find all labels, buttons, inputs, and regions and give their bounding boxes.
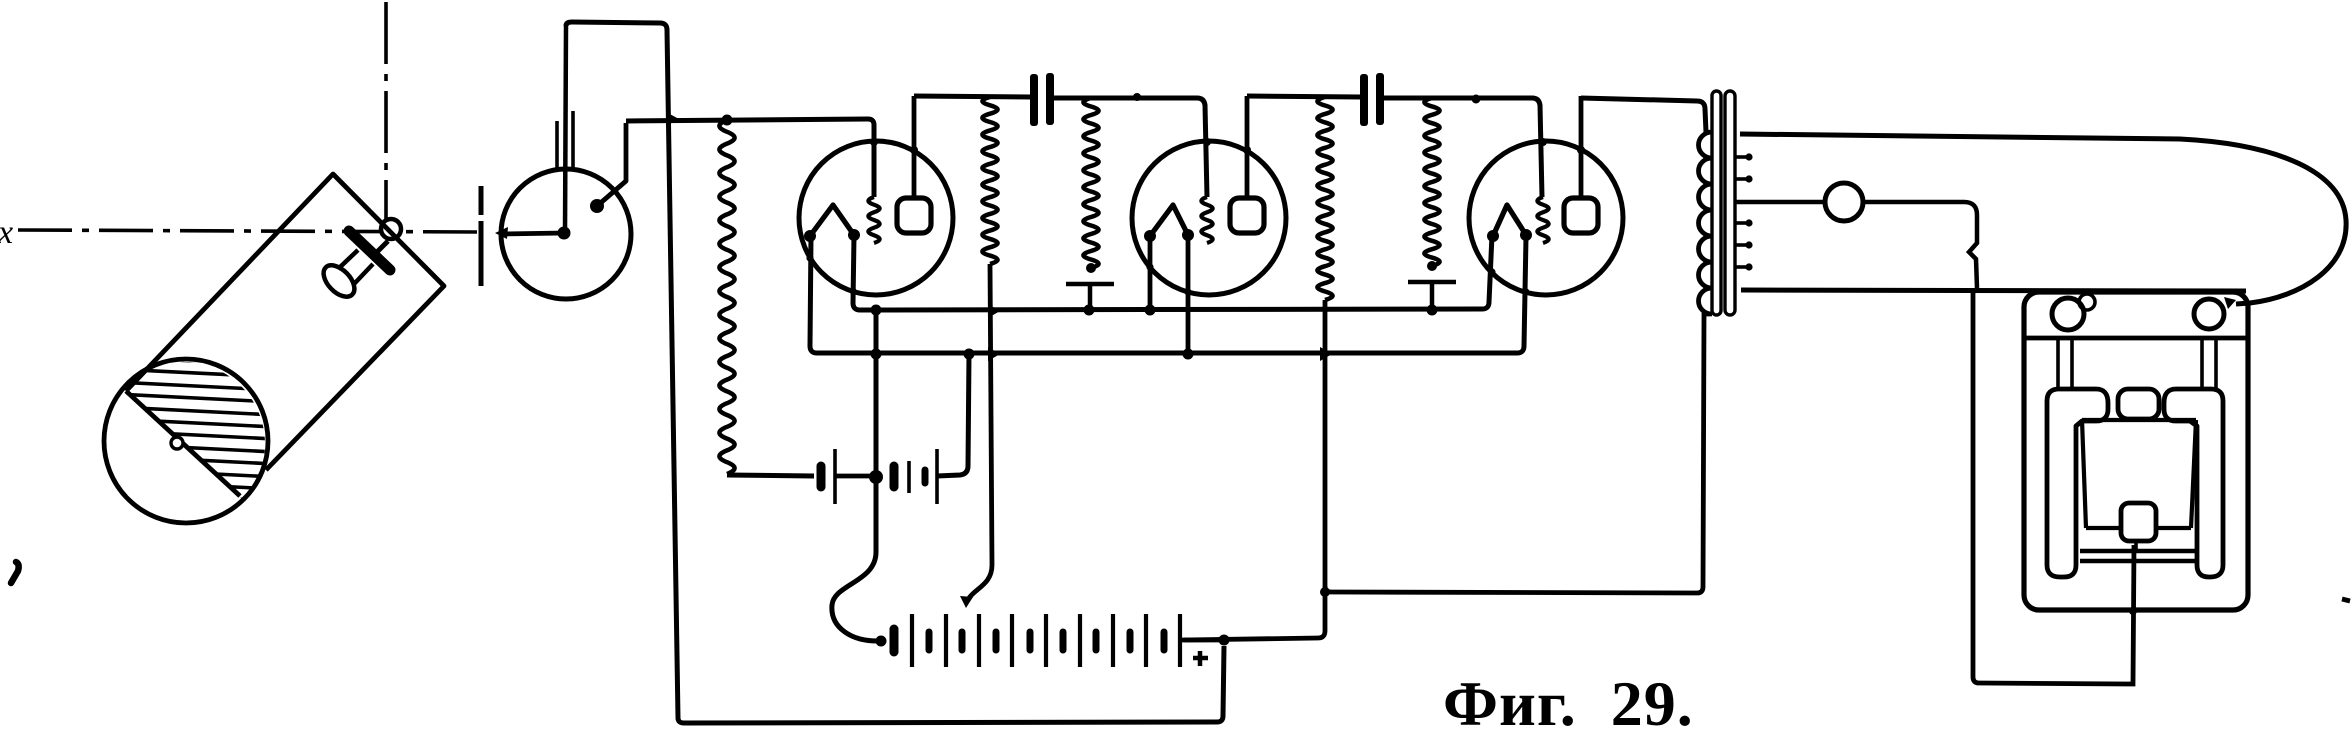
triode U3 anode glass blob bbox=[1577, 146, 1585, 154]
capacitor C1 plate right bbox=[1046, 73, 1054, 125]
capacitor C1 plate left bbox=[1030, 74, 1038, 126]
svg-text:Фиг. 29.: Фиг. 29. bbox=[1443, 668, 1694, 730]
triode U2 filament left node bbox=[1144, 230, 1156, 242]
ground tap T1 bar bbox=[1066, 282, 1114, 287]
capacitor C2 plate left bbox=[1360, 74, 1368, 126]
battery B1 plate thin 1 bbox=[833, 449, 837, 504]
indicator eyelet circle bbox=[1825, 183, 1863, 221]
glass crossing blob (853,291) bbox=[849, 287, 856, 294]
recorder magnet left limb bbox=[2047, 389, 2108, 577]
battery B1 plate thin 2 bbox=[907, 461, 911, 493]
node at R1 top bbox=[722, 115, 733, 126]
wire rail1 down to B1 and tap curve bbox=[832, 310, 877, 641]
U2 filament left leg to rail1 bbox=[1148, 236, 1153, 310]
triode U2 anode glass blob bbox=[1243, 146, 1251, 154]
recorder pulley right bbox=[2194, 299, 2224, 329]
junction blob at grid wire crossing bbox=[666, 112, 679, 126]
wire C1 to U2 grid bbox=[1054, 98, 1207, 197]
rail crossing blob 2 bbox=[988, 347, 1000, 361]
svg-text:x: x bbox=[0, 214, 13, 251]
photocell cathode lead arrow bbox=[495, 227, 508, 239]
battery B1 plate thick 1 bbox=[817, 466, 826, 487]
junction node rail (1089,310) bbox=[1084, 305, 1095, 316]
node B2 left terminal bbox=[876, 636, 887, 647]
wire eyelet to right drop with jog bbox=[1863, 202, 1977, 288]
junction node rail (1432,310) bbox=[1427, 305, 1438, 316]
glass crossing blob (1150,267) bbox=[1146, 263, 1153, 270]
junction node rail (876,354) bbox=[871, 349, 882, 360]
binding post tip bbox=[377, 241, 388, 252]
R3 bottom node bbox=[1086, 263, 1096, 273]
triode U2 anode lead bbox=[1245, 96, 1250, 198]
node B2 right wire bbox=[1219, 635, 1230, 646]
battery tap arrowhead bbox=[960, 596, 973, 608]
triode U1 filament right node bbox=[848, 229, 860, 241]
triode U3 filament left node bbox=[1487, 230, 1499, 242]
galvanometer capsule bottom edge bbox=[1741, 290, 2246, 291]
triode U2 anode plate bbox=[1230, 198, 1264, 233]
recorder top bar bbox=[2026, 336, 2246, 341]
triode U1 grid glass blob bbox=[870, 138, 878, 146]
binding post bar on cylinder bbox=[349, 231, 390, 270]
glass crossing blob (810,258) bbox=[806, 254, 813, 261]
diaphragm slit upper tick bbox=[479, 186, 484, 215]
photocell neck left bbox=[555, 121, 559, 170]
triode U2 filament right node bbox=[1182, 229, 1194, 241]
optical axis horizontal (dash-dot) bbox=[18, 230, 478, 232]
wire R2 to battery tap arrow bbox=[969, 264, 992, 598]
stray apostrophe mark bbox=[11, 562, 19, 583]
resistor R1 (long vertical) bbox=[719, 120, 734, 474]
battery B2 right lead bbox=[1180, 638, 1224, 643]
triode U2 grid electrode bbox=[1201, 197, 1212, 243]
recorder pulley left curl bbox=[2079, 294, 2095, 310]
window aperture circle on tube bbox=[381, 219, 401, 239]
wire C2 to U3 grid bbox=[1384, 98, 1542, 197]
resistor R2 bbox=[982, 97, 997, 264]
transformer primary bottom lead bbox=[1325, 314, 1710, 593]
ground tap T2 stem bbox=[1430, 282, 1435, 310]
optical axis vertical (dash-dot) bbox=[384, 2, 388, 219]
recorder center yoke block bbox=[2118, 389, 2159, 419]
junction node rail (876,310) bbox=[871, 305, 882, 316]
triode U1 filament bbox=[810, 205, 854, 236]
wire U1 anode to C1 bbox=[914, 96, 1031, 97]
filament bus upper (rail 1) with U1/U3 legs bbox=[853, 235, 1492, 310]
battery B1 wire mid bbox=[835, 474, 876, 479]
recorder coil top edge bbox=[2082, 418, 2196, 422]
resistor R5 bbox=[1424, 98, 1439, 266]
triode U3 anode lead bbox=[1579, 96, 1584, 198]
node transformer return tee bbox=[1320, 587, 1330, 597]
glass crossing blob (1492,272) bbox=[1488, 268, 1495, 275]
photocell anode lead diagonal bbox=[597, 123, 626, 206]
resistor R3 bbox=[1083, 98, 1098, 268]
battery B1 right wire bbox=[937, 354, 969, 476]
transformer core bar left bbox=[1712, 91, 1721, 315]
wire R4 down to B2 return bbox=[1184, 300, 1325, 640]
wire photocell top to left drop bbox=[566, 22, 1224, 723]
triode U3 grid glass blob bbox=[1539, 138, 1547, 146]
recorder pulley left bbox=[2052, 298, 2084, 330]
wire U3 anode to transformer bbox=[1581, 98, 1706, 132]
rail crossing blob 3 bbox=[1320, 347, 1332, 361]
capacitor C2 plate right bbox=[1376, 73, 1384, 125]
recorder armature block bbox=[2121, 503, 2156, 541]
transformer secondary end ticks bbox=[1736, 155, 1747, 159]
wire transformer to eyelet bbox=[1736, 200, 1825, 205]
recorder outer frame bbox=[2024, 292, 2248, 610]
ground tap T2 bar bbox=[1408, 280, 1456, 285]
recorder coil bottom right bbox=[2156, 526, 2191, 530]
photocell stem wire bbox=[565, 26, 566, 233]
ground tap T1 stem bbox=[1088, 284, 1093, 310]
recorder bottom crossing blob bbox=[2129, 607, 2137, 615]
triode U1 anode lead bbox=[912, 96, 917, 198]
photocell neck right bbox=[571, 111, 575, 170]
photocell glass bulb bbox=[501, 169, 631, 299]
R5 bottom node bbox=[1427, 261, 1437, 271]
resistor R4 bbox=[1317, 97, 1332, 300]
recorder coil left side bbox=[2082, 420, 2086, 528]
triode U2 glass envelope bbox=[1132, 141, 1286, 295]
node on coupling wire 2 bbox=[1472, 95, 1481, 104]
diaphragm slit lower tick bbox=[479, 221, 484, 286]
junction node rail (1150,310) bbox=[1145, 305, 1156, 316]
photocell cathode lead bbox=[500, 233, 564, 234]
triode U1 anode glass blob bbox=[910, 146, 918, 154]
recorder lower bar 2 bbox=[2080, 559, 2197, 564]
junction node rail (969,354) bbox=[964, 349, 975, 360]
recorder coil bottom left bbox=[2086, 526, 2122, 530]
recorder armature stem bbox=[2134, 541, 2138, 551]
photocell cathode dot bbox=[558, 227, 571, 240]
battery B1 plate thick 2 bbox=[890, 466, 899, 487]
triode U1 filament left node bbox=[804, 230, 816, 242]
triode U1 anode plate bbox=[897, 198, 931, 233]
battery B1 plate thin 3 bbox=[935, 449, 939, 504]
photocell anode dot bbox=[590, 199, 604, 213]
junction node rail (1188,354) bbox=[1183, 349, 1194, 360]
glass crossing blob (1526,292) bbox=[1522, 288, 1529, 295]
recorder hanger left pair bbox=[2058, 338, 2072, 389]
galvanometer capsule top edge and right arc bbox=[1740, 134, 2346, 304]
triode U2 filament bbox=[1150, 205, 1188, 236]
recorder coil right side bbox=[2191, 420, 2196, 528]
U2 filament right leg to rail2 bbox=[1186, 235, 1191, 354]
battery B2 (anode battery) cells bbox=[890, 629, 899, 652]
transformer core bar right bbox=[1725, 91, 1735, 315]
wire anode to grid bus bbox=[626, 119, 874, 197]
triode U2 grid glass blob bbox=[1203, 138, 1211, 146]
recorder magnet right limb bbox=[2164, 389, 2223, 577]
transformer primary winding loops bbox=[1699, 132, 1713, 314]
triode U3 grid electrode bbox=[1537, 197, 1548, 243]
recorder lower bar 1 bbox=[2080, 549, 2197, 554]
filament bus lower (rail 2) with U1/U3 legs bbox=[810, 236, 1526, 353]
cylinder face chord edge bbox=[126, 391, 240, 496]
node on coupling wire bbox=[1133, 93, 1141, 101]
recorder pulley right blob bbox=[2224, 297, 2236, 309]
wire U2 anode to C2 bbox=[1247, 96, 1361, 97]
recorder hanger right pair bbox=[2202, 338, 2216, 389]
glass crossing blob (1188,292) bbox=[1184, 288, 1191, 295]
battery B1 junction node bbox=[869, 470, 883, 484]
binding post base ellipse bbox=[318, 260, 360, 303]
battery B2 plus sign bbox=[1193, 651, 1208, 666]
triode U3 filament right node bbox=[1520, 229, 1532, 241]
triode U3 glass envelope bbox=[1469, 141, 1623, 295]
cylinder face center hole bbox=[171, 437, 183, 449]
X-ray tube cylinder body edges bbox=[126, 174, 444, 470]
cylinder face outer ellipse bbox=[104, 359, 268, 523]
triode U1 glass envelope bbox=[799, 141, 953, 295]
stray mark right edge bbox=[2342, 599, 2350, 601]
binding post body bbox=[338, 250, 373, 284]
wire R1 bottom to battery B1 bbox=[727, 475, 814, 476]
battery B1 dot plate bbox=[922, 470, 929, 483]
triode U3 filament bbox=[1493, 205, 1526, 236]
triode U1 grid electrode bbox=[868, 197, 879, 243]
triode U3 anode plate bbox=[1564, 198, 1598, 233]
wire capsule to recorder (long L) bbox=[1973, 291, 2134, 684]
rail crossing blob 1 bbox=[988, 304, 1000, 318]
